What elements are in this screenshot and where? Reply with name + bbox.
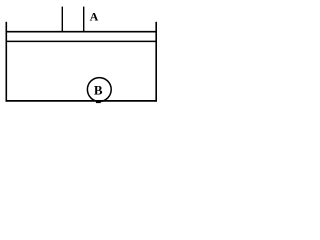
liquid surface lower line <box>6 40 158 42</box>
tank left wall <box>5 22 7 102</box>
tank bottom <box>6 100 158 102</box>
tank right wall <box>155 22 157 102</box>
nub below pump <box>96 101 101 103</box>
svg-text:B: B <box>94 83 103 98</box>
liquid surface upper line <box>6 31 158 33</box>
pump circle B <box>87 78 111 102</box>
tube right wall <box>83 7 85 33</box>
tube left wall <box>61 7 63 33</box>
svg-text:A: A <box>90 10 99 24</box>
